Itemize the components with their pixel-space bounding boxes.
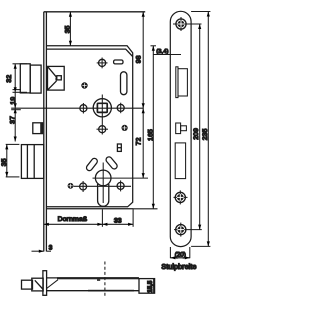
svg-text:72: 72 <box>136 137 143 145</box>
svg-text:32: 32 <box>6 75 13 83</box>
bottom view bump <box>88 290 134 292</box>
case bottom extension line <box>133 208 158 210</box>
svg-text:Stulpbreite: Stulpbreite <box>161 264 196 271</box>
dimension 165 line <box>151 46 157 209</box>
bottom view plate notch <box>97 279 100 281</box>
svg-text:(20): (20) <box>175 251 186 258</box>
svg-text:33: 33 <box>114 217 122 224</box>
svg-text:3: 3 <box>49 244 53 251</box>
bottom view end box <box>139 279 155 294</box>
top screw hole crosshair circle <box>99 59 106 66</box>
cylinder left screw hole <box>80 183 87 190</box>
dimension 235 <box>191 12 210 247</box>
bottom view inner diagonal <box>47 280 58 289</box>
lock case outer outline <box>46 46 132 207</box>
dimension (20) <box>170 247 189 259</box>
hub horizontal centerline (also left extension) <box>11 107 143 109</box>
auxiliary latch dark face <box>40 123 42 134</box>
right hub screw hole <box>117 104 124 111</box>
rivet dot right <box>122 125 128 131</box>
rivet dot lower left <box>68 183 74 189</box>
bottom view latch collar <box>32 278 43 291</box>
dimension 32 left <box>11 64 27 142</box>
stulp lever cutout block <box>176 123 181 134</box>
svg-text:235: 235 <box>202 128 209 140</box>
deadbolt division line 1 <box>26 145 28 179</box>
latch body box <box>48 66 65 90</box>
bottom view case bottom line <box>47 290 139 292</box>
stulp plate outline <box>170 11 191 246</box>
left hub screw hole <box>80 105 87 112</box>
wire top extension line (stulp top) <box>44 11 145 13</box>
rivet dot upper <box>81 82 87 88</box>
svg-text:98: 98 <box>135 55 142 63</box>
svg-text:15,5: 15,5 <box>147 280 154 293</box>
profile cylinder circle <box>95 170 111 186</box>
latch nose rect <box>57 76 62 80</box>
Dornmass dimension line <box>44 209 103 226</box>
stulp bottom screw hole <box>174 223 202 237</box>
faceplate front line <box>43 12 45 252</box>
hub vertical centerline <box>101 95 103 135</box>
cylinder right screw hole <box>117 182 124 189</box>
svg-text:35: 35 <box>64 25 71 33</box>
(3,4) leader line <box>153 54 181 56</box>
latch bevel lower diagonal <box>48 81 57 90</box>
stulp latch cutout <box>178 69 187 96</box>
cylinder vertical centerline <box>102 163 104 204</box>
svg-text:209: 209 <box>193 128 200 140</box>
stulp latch cutout lip <box>176 67 178 98</box>
stulp lever cutout bar <box>181 126 187 131</box>
bottom view latch bevel diagonal <box>35 280 43 289</box>
lock case inner top line <box>46 49 132 57</box>
svg-text:35: 35 <box>1 158 8 166</box>
stulp middle screw hole <box>174 190 188 204</box>
svg-text:165: 165 <box>147 129 154 141</box>
top small slot <box>114 60 123 64</box>
follower square <box>97 103 107 112</box>
left angled slot <box>85 157 98 172</box>
below-hub screw hole <box>99 126 106 133</box>
latch bolt collar <box>30 65 41 93</box>
cylinder horizontal centerline <box>93 177 149 179</box>
bottom view case top line <box>47 277 139 279</box>
bottom view latch head small box <box>22 280 33 289</box>
faceplate back line <box>45 12 47 252</box>
stulp cylinder cutout <box>175 143 185 179</box>
svg-text:Dornmaß: Dornmaß <box>58 216 88 223</box>
vertical slot near right edge <box>121 72 127 95</box>
right angled slot <box>105 156 118 170</box>
lock case outer bottom line <box>46 208 133 210</box>
dimension 35 deadbolt <box>5 144 19 177</box>
dimension 209 <box>198 24 201 230</box>
stulp top screw hole <box>173 17 202 31</box>
dimension 33 <box>102 209 133 226</box>
deadbolt division line 2 <box>33 145 35 179</box>
svg-text:19: 19 <box>10 97 17 105</box>
bottom view dashed centerline <box>104 262 106 298</box>
small 8-shaped rect <box>117 144 121 151</box>
dimension 3 faceplate thickness <box>32 250 52 253</box>
bottom view end box dark edge <box>153 279 155 294</box>
follower hub circle <box>93 99 111 117</box>
screw line at cylinder level <box>74 185 132 187</box>
dimension 35 top line <box>69 12 72 46</box>
svg-text:37: 37 <box>9 116 16 124</box>
latch bevel upper diagonal <box>48 66 57 77</box>
latch bolt head <box>20 64 30 93</box>
deadbolt box <box>21 145 43 179</box>
bottom view faceplate bar <box>43 271 47 296</box>
profile cylinder neck <box>98 184 109 206</box>
dimension 98/72 line right <box>142 12 145 178</box>
bottom view case top thick plate <box>57 277 139 279</box>
auxiliary latch box <box>33 123 43 134</box>
latch bevel nose <box>55 77 57 81</box>
